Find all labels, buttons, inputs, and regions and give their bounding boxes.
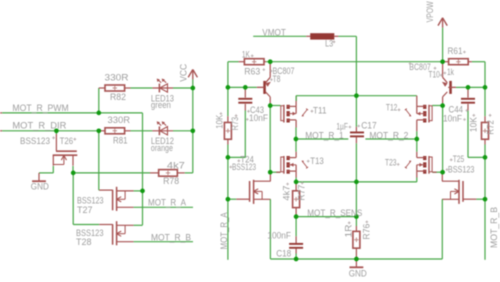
svg-text:T13: T13 [310, 156, 324, 166]
svg-text:BSS123: BSS123 [232, 162, 256, 172]
svg-text:10nF: 10nF [443, 113, 462, 123]
svg-text:4k7: 4k7 [282, 186, 292, 201]
svg-text:R78: R78 [163, 176, 179, 186]
svg-text:10nF: 10nF [249, 113, 268, 123]
svg-text:MOT_R_1: MOT_R_1 [305, 131, 344, 141]
svg-text:VCC: VCC [179, 63, 189, 81]
svg-text:MOT_R_A: MOT_R_A [219, 212, 229, 249]
svg-text:L3: L3 [325, 38, 333, 48]
svg-text:330R: 330R [105, 73, 130, 83]
svg-text:MOT_R_2: MOT_R_2 [369, 131, 408, 141]
svg-text:1R: 1R [343, 224, 353, 238]
svg-text:C18: C18 [276, 249, 291, 259]
svg-text:R72: R72 [486, 120, 496, 135]
svg-text:1k: 1k [447, 67, 454, 77]
svg-text:C17: C17 [361, 120, 377, 130]
svg-text:T28: T28 [76, 237, 92, 247]
svg-text:T11: T11 [313, 105, 327, 115]
svg-text:MOT_R_A: MOT_R_A [148, 198, 186, 208]
svg-text:T12: T12 [386, 103, 398, 113]
svg-text:VMOT: VMOT [262, 27, 286, 37]
svg-text:MOT_R_B: MOT_R_B [489, 207, 499, 248]
svg-text:MOT_R_DIR: MOT_R_DIR [12, 121, 67, 131]
svg-text:10K: 10K [468, 117, 478, 132]
svg-text:GND: GND [349, 269, 367, 279]
svg-text:VPOW: VPOW [425, 1, 435, 22]
svg-text:1K: 1K [242, 50, 250, 60]
svg-text:MOT_R_B: MOT_R_B [151, 233, 191, 243]
svg-text:R76: R76 [362, 224, 372, 240]
svg-text:T25: T25 [453, 154, 465, 164]
svg-text:R73: R73 [230, 117, 240, 131]
svg-text:T8: T8 [273, 74, 281, 84]
svg-text:BSS123: BSS123 [448, 165, 475, 175]
svg-text:T23: T23 [385, 157, 397, 167]
svg-text:10K: 10K [214, 115, 224, 129]
svg-text:R81: R81 [113, 136, 128, 146]
svg-text:R61: R61 [448, 46, 463, 56]
svg-text:T10: T10 [428, 69, 440, 79]
svg-text:MOT_R_SENS: MOT_R_SENS [307, 208, 362, 218]
svg-text:T26: T26 [60, 136, 74, 146]
svg-text:orange: orange [151, 143, 173, 153]
svg-text:BSS123: BSS123 [20, 136, 50, 146]
svg-text:R77: R77 [297, 185, 307, 201]
svg-text:100nF: 100nF [267, 231, 291, 241]
svg-text:330R: 330R [108, 115, 131, 125]
svg-text:R63: R63 [244, 66, 260, 76]
svg-text:MOT_R_PWM: MOT_R_PWM [12, 103, 68, 113]
svg-text:R82: R82 [110, 92, 126, 102]
svg-text:green: green [151, 100, 171, 110]
svg-text:T27: T27 [77, 205, 93, 215]
svg-text:4k7: 4k7 [167, 161, 185, 171]
svg-text:GND: GND [31, 182, 49, 192]
